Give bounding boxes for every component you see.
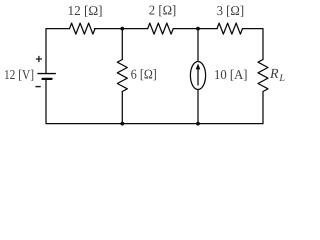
wire bottom-left with corner up to battery	[46, 80, 122, 124]
wire top-left segment with corner	[46, 29, 70, 74]
svg-text:RL: RL	[269, 67, 285, 84]
wire top-right segment with corner	[243, 29, 264, 60]
resistor RL (vertical zigzag)	[258, 60, 268, 92]
wire bottom rail middle	[122, 123, 198, 125]
svg-text:6 [Ω]: 6 [Ω]	[131, 67, 157, 82]
wire current source branch lower	[197, 90, 199, 124]
label minus sign	[36, 86, 41, 88]
resistor R 12 ohm (zigzag)	[70, 23, 96, 34]
wire 6ohm branch upper	[121, 29, 123, 60]
current source I1 ellipse body	[190, 62, 205, 90]
svg-text:3 [Ω]: 3 [Ω]	[217, 3, 245, 18]
wire 6ohm branch lower	[121, 92, 123, 124]
node A junction dot (top of 6 ohm)	[120, 27, 124, 31]
battery V1 short plate (negative)	[43, 78, 52, 80]
wire right lower with corner	[198, 92, 263, 124]
resistor R 2 ohm (zigzag)	[148, 23, 173, 34]
svg-text:10 [A]: 10 [A]	[214, 67, 248, 82]
node D junction dot (bottom of current source)	[196, 122, 200, 126]
node B junction dot (top of current source)	[196, 27, 200, 31]
svg-text:2 [Ω]: 2 [Ω]	[149, 2, 177, 17]
label plus sign	[36, 56, 42, 62]
svg-text:12 [Ω]: 12 [Ω]	[68, 3, 103, 18]
battery V1 long plate (positive)	[38, 73, 55, 75]
resistor R 3 ohm (zigzag)	[217, 23, 242, 34]
wire top between 12ohm and 2ohm	[95, 28, 148, 30]
svg-text:12 [V]: 12 [V]	[4, 67, 34, 82]
wire top between 2ohm and 3ohm	[173, 28, 217, 30]
node C junction dot (bottom of 6 ohm)	[120, 122, 124, 126]
resistor R 6 ohm (vertical zigzag)	[117, 60, 127, 92]
current source I1 arrow head	[196, 64, 201, 70]
wire current source branch upper	[197, 29, 199, 62]
current source I1 arrow shaft	[197, 68, 199, 85]
